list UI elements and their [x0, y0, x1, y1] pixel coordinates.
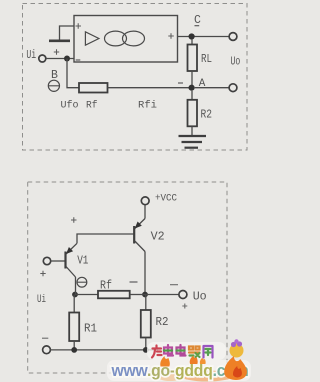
- plus label (noninverting input): [76, 23, 82, 29]
- svg-text:Rf: Rf: [86, 99, 98, 111]
- transistor V1 (PNP): [64, 252, 66, 269]
- resistor R2 (top circuit): [188, 100, 198, 127]
- plus label under input terminal: [40, 271, 45, 276]
- source symbol B (feedback voltage indicator): [48, 80, 59, 91]
- resistor Rf (top feedback resistor): [79, 83, 108, 93]
- transistor V2 (PNP): [133, 226, 135, 244]
- op-amp block U1 (ideal amplifier box): [74, 16, 178, 63]
- minus label above bottom-left terminal: [42, 337, 48, 339]
- wire node C to RL: [191, 40, 193, 45]
- terminal Ui: [39, 55, 46, 62]
- paper background: [0, 0, 251, 382]
- watermark halo behind text: [147, 342, 226, 360]
- watermark Chinese text 广电电器网 (stylised): [152, 345, 213, 358]
- wire V2 emitter to VCC terminal: [144, 205, 146, 219]
- svg-text:Ufo: Ufo: [61, 99, 79, 111]
- plus label (interstage): [71, 217, 77, 222]
- minus label left of node A: [178, 82, 183, 84]
- dashed enclosure (transistor circuit): [28, 182, 227, 373]
- plus label (output): [168, 33, 174, 39]
- watermark flame wash behind url: [181, 371, 233, 382]
- watermark logo emblem (yellow ball + purple petals): [230, 344, 244, 358]
- resistor R2 (bottom): [141, 310, 151, 338]
- minus label above output wire: [170, 284, 178, 286]
- node A junction dot: [189, 85, 195, 91]
- wire Rf to node A (Rfi net): [108, 87, 192, 89]
- terminal bottom-left: [43, 346, 51, 354]
- terminal lower output: [229, 84, 237, 92]
- wire V1 emitter to V2 base: [77, 234, 134, 243]
- resistor R1: [69, 313, 79, 342]
- char 电 (1): [164, 345, 173, 356]
- svg-text:Rfi: Rfi: [138, 99, 157, 111]
- source symbol (feedback voltage indicator, bottom): [77, 277, 87, 287]
- minus label left of collector wire: [130, 281, 138, 283]
- node C junction dot: [189, 33, 195, 39]
- svg-text:R2: R2: [201, 108, 213, 122]
- resistor RL: [188, 45, 198, 72]
- svg-text:Uo: Uo: [193, 290, 207, 304]
- wire junction down to feedback row: [67, 59, 79, 88]
- minus label under C: [195, 25, 200, 27]
- svg-text:V1: V1: [77, 255, 88, 268]
- amplifier triangle symbol: [85, 32, 99, 45]
- wire R2 to ground: [191, 126, 193, 135]
- junction dot R2/rail: [143, 347, 149, 353]
- svg-text:R1: R1: [84, 322, 97, 336]
- char 电 (2): [177, 345, 186, 356]
- svg-text:C: C: [194, 14, 201, 27]
- node feedback-left junction dot: [72, 292, 78, 298]
- wire V1 collector to feedback node: [75, 277, 77, 295]
- ground (earth, 3 bars): [179, 135, 207, 137]
- plus label near Ui: [54, 49, 59, 54]
- char 网: [204, 346, 213, 358]
- wire amp output to node C and terminal: [178, 36, 230, 38]
- plus label under Uo terminal: [182, 304, 187, 309]
- wire feedback node to Rf: [75, 294, 98, 296]
- wire V2 collector to output node: [144, 252, 146, 295]
- wire Rf to output node: [130, 294, 145, 296]
- wire feedback node down to R1: [73, 295, 75, 313]
- infinite-gain double-ellipse symbol: [105, 31, 127, 46]
- wire RL to node A: [191, 71, 193, 88]
- svg-text:Uo: Uo: [231, 55, 241, 69]
- node output junction dot: [142, 292, 148, 298]
- wire output node to terminal Uo: [145, 294, 179, 296]
- svg-text:+VCC: +VCC: [155, 193, 177, 205]
- wire input to V1 base: [51, 260, 65, 262]
- wire R2 to bottom rail: [145, 338, 147, 350]
- ground (input reference bar): [49, 39, 70, 42]
- junction dot R1/rail: [71, 347, 77, 353]
- char 器: [189, 347, 200, 353]
- wire output node down to R2: [145, 295, 147, 311]
- wire node A to terminal: [195, 87, 230, 89]
- terminal +VCC: [141, 197, 149, 205]
- junction dot at inverting input node: [64, 56, 70, 62]
- svg-text:RL: RL: [201, 52, 212, 66]
- watermark small flames over letters: [160, 356, 170, 367]
- dashed enclosure (block diagram): [23, 4, 248, 151]
- wire Ui to inverting input: [46, 58, 74, 60]
- terminal Uo (bottom): [179, 291, 187, 299]
- terminal upper output: [229, 33, 237, 41]
- svg-text:Ui: Ui: [37, 294, 46, 306]
- svg-text:Rf: Rf: [100, 280, 112, 293]
- resistor Rf (bottom): [98, 291, 130, 299]
- wire node A to R2: [191, 91, 193, 100]
- wire noninverting input to ground: [60, 26, 75, 40]
- svg-text:V2: V2: [151, 230, 165, 243]
- wire R1 to bottom rail: [73, 341, 75, 350]
- svg-text:R2: R2: [156, 315, 169, 329]
- minus label (inverting input): [76, 59, 81, 61]
- char 广: [152, 346, 162, 358]
- bottom rail wire: [50, 349, 158, 351]
- terminal Ui (bottom input): [43, 257, 50, 264]
- watermark logo big flame (right): [224, 356, 247, 380]
- svg-text:Ui: Ui: [26, 48, 36, 62]
